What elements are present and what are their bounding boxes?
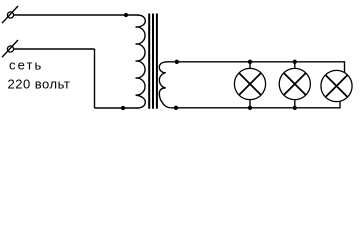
wire: secondary bottom rail bbox=[171, 101, 340, 108]
svg-text:сеть: сеть bbox=[9, 57, 43, 72]
junction dot: primary top terminal bbox=[124, 13, 128, 17]
junction dot: primary bottom terminal bbox=[121, 106, 125, 110]
plug terminal X1 (circle with slash) bbox=[2, 6, 18, 23]
lamp HL2 bbox=[279, 62, 310, 108]
junction dot: HL2 top bbox=[293, 60, 297, 64]
junction dot: HL1 top bbox=[248, 60, 252, 64]
transformer core bbox=[149, 14, 157, 109]
lamp HL3 bbox=[321, 70, 352, 101]
junction dot: secondary top terminal bbox=[175, 60, 179, 64]
junction dot: HL2 bottom bbox=[293, 106, 297, 110]
wire: secondary top rail bbox=[168, 62, 345, 73]
junction dot: HL1 bottom bbox=[248, 106, 252, 110]
junction dot: secondary bottom terminal bbox=[174, 106, 178, 110]
wire: top lead from X1 to transformer primary bbox=[14, 14, 138, 16]
lamp HL1 bbox=[234, 62, 265, 108]
plug terminal X2 (circle with slash) bbox=[2, 40, 18, 57]
wire: vertical drop bbox=[94, 49, 96, 108]
svg-text:220 вольт: 220 вольт bbox=[8, 77, 71, 92]
wire: lead from X2 right bbox=[14, 48, 95, 50]
transformer secondary winding L2 bbox=[159, 62, 171, 108]
transformer primary winding L1 bbox=[136, 15, 146, 108]
wire: bottom lead to transformer primary bbox=[95, 107, 138, 109]
